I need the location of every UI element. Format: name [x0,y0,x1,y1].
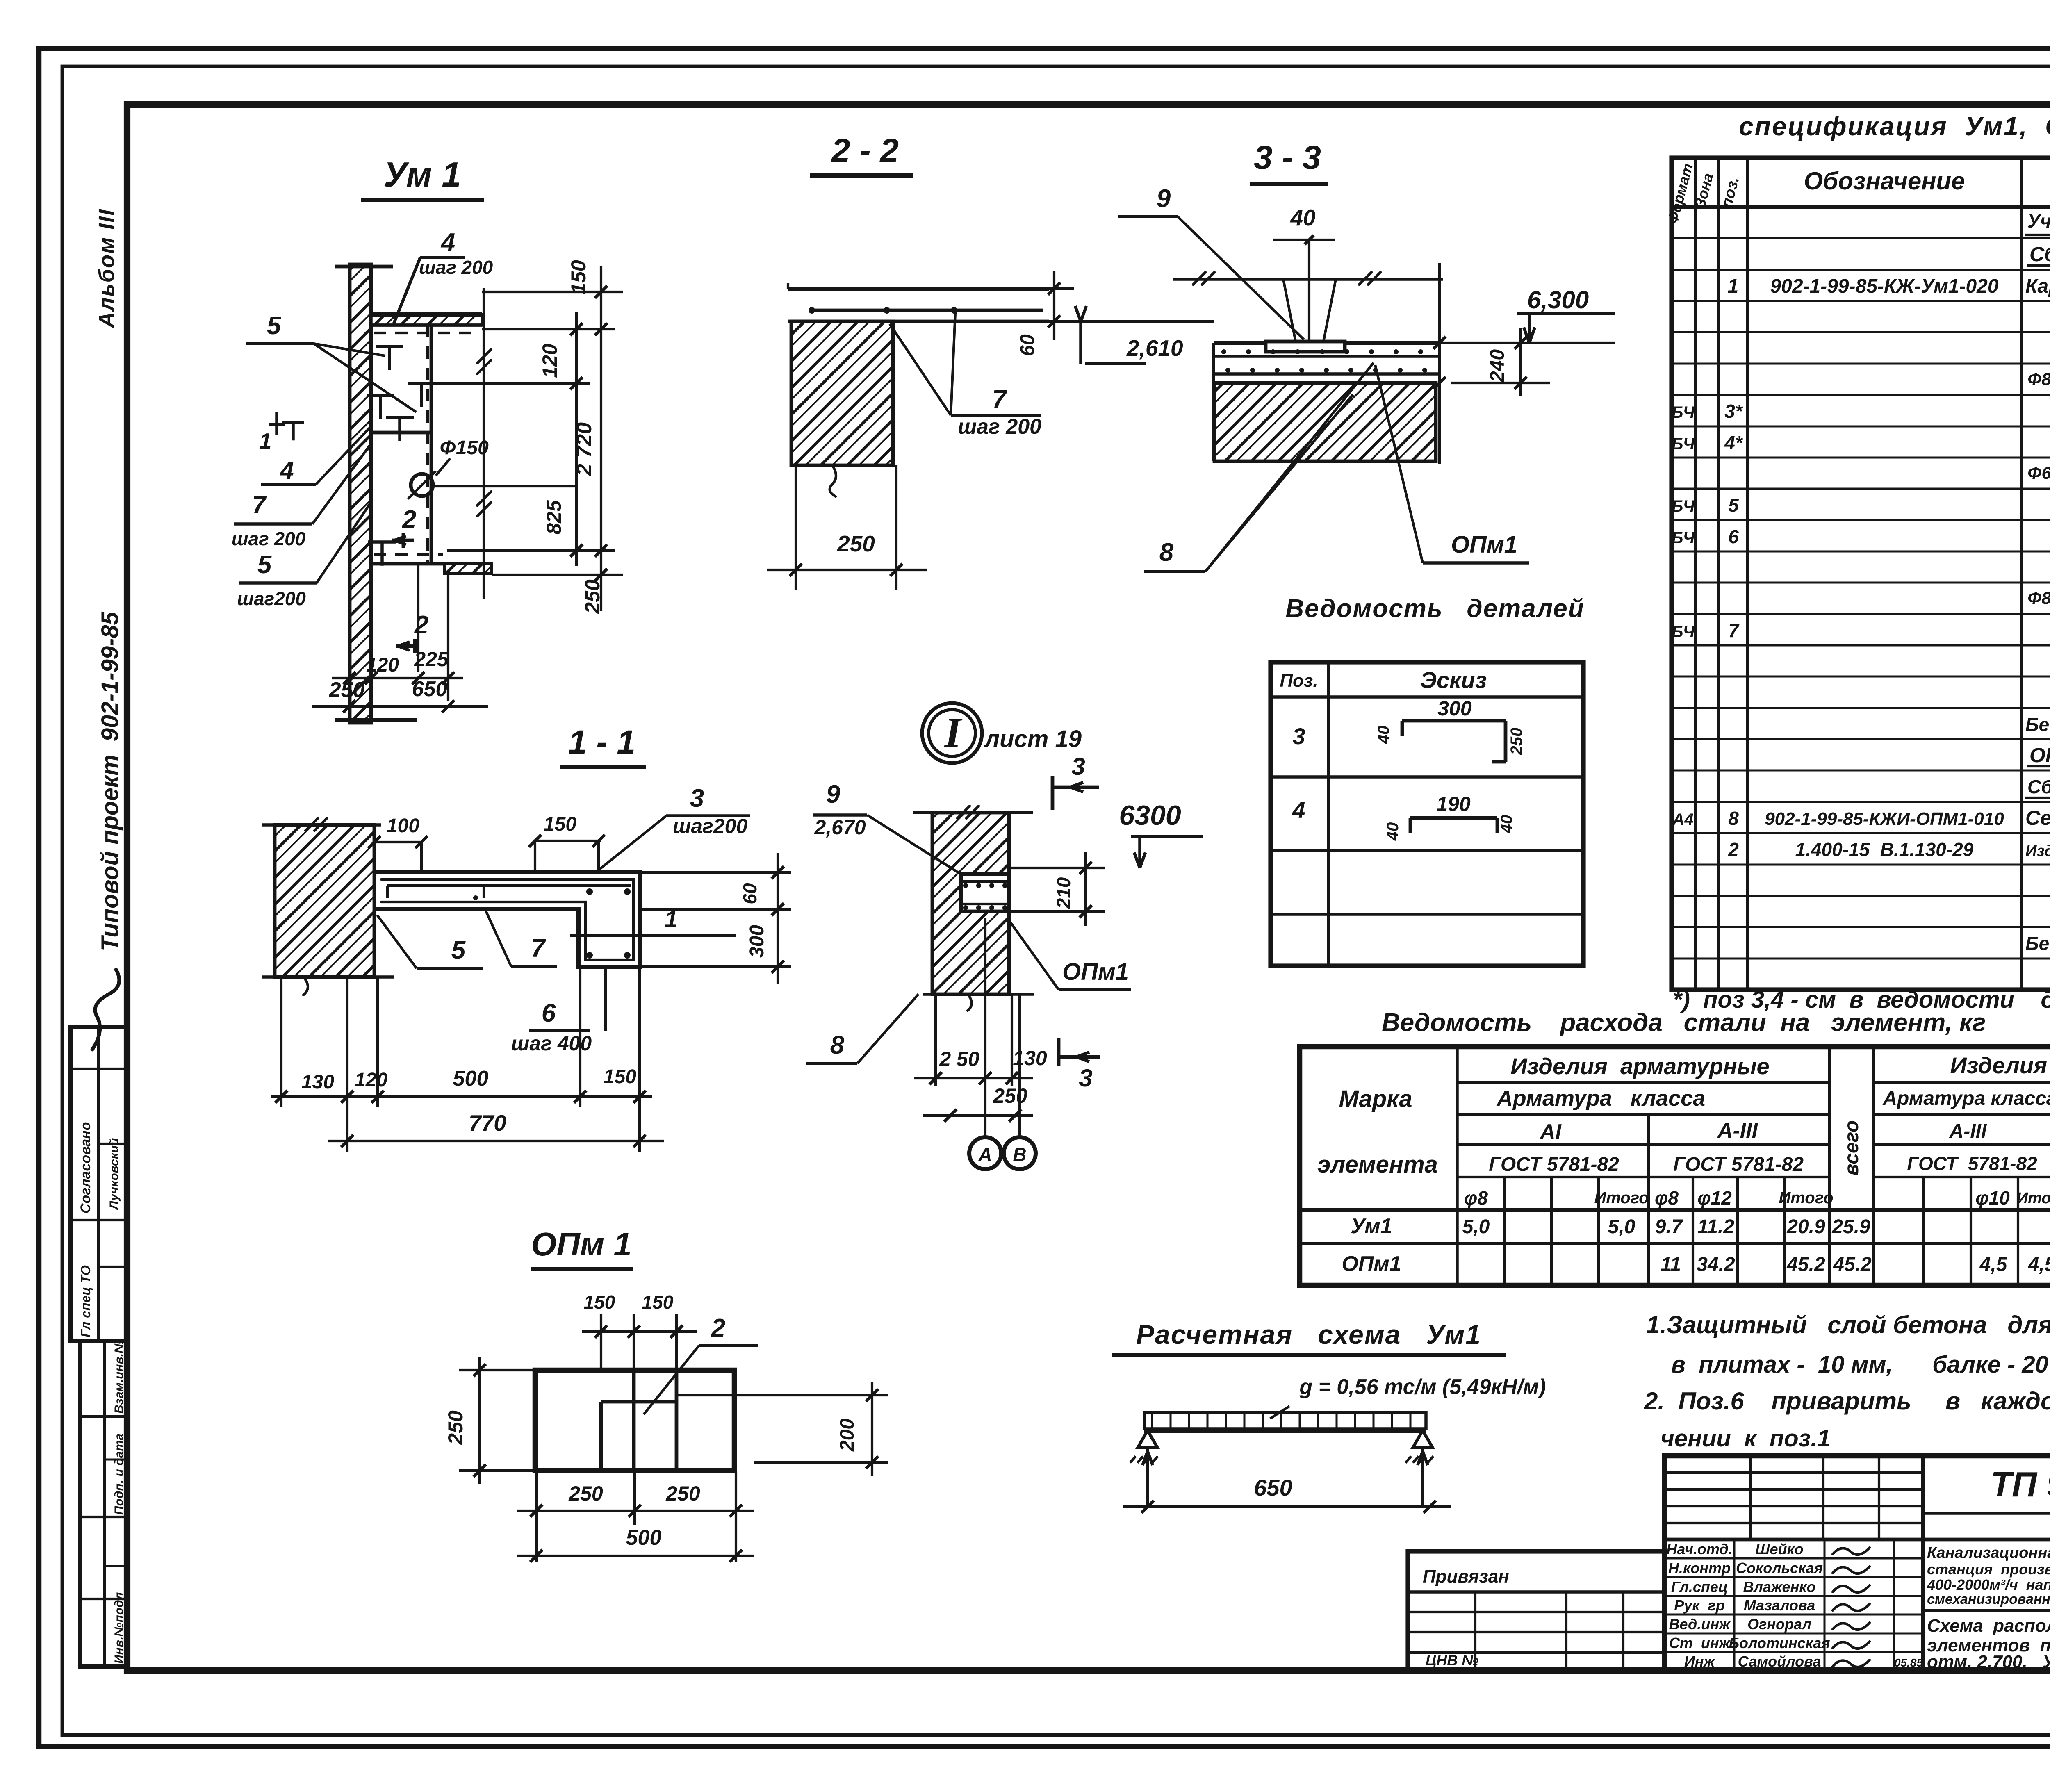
svg-text:2,670: 2,670 [814,816,866,839]
svg-text:элемента: элемента [1317,1151,1438,1178]
svg-text:40: 40 [1384,822,1402,841]
svg-text:Согласовано: Согласовано [78,1122,93,1214]
svg-text:8: 8 [1159,538,1174,567]
steel table subcolumn lines [1503,1177,1506,1285]
svg-text:ОПм1 - шт.16: ОПм1 - шт.16 [2029,744,2050,767]
svg-text:4: 4 [280,457,294,484]
svg-text:Нач.отд.: Нач.отд. [1666,1541,1732,1557]
svg-text:Мазалова: Мазалова [1744,1597,1815,1614]
svg-text:Марка: Марка [1339,1086,1412,1112]
svg-text:Изделия арматурные: Изделия арматурные [1510,1053,1769,1079]
svg-text:φ12: φ12 [1697,1187,1732,1209]
svg-text:40: 40 [1290,205,1316,230]
svg-text:825: 825 [542,500,565,535]
OPm1 inner lines [632,1370,636,1471]
svg-text:шаг200: шаг200 [673,815,748,838]
Um1 dashed rebar lines [426,325,429,564]
svg-text:120: 120 [366,654,399,676]
calc scheme dim 650 [1123,1505,1451,1508]
svg-text:902-1-99-85-КЖ-Ум1-020: 902-1-99-85-КЖ-Ум1-020 [1770,276,1998,297]
svg-text:Ум1: Ум1 [1351,1214,1392,1238]
title block names rows [1665,1557,1923,1560]
1-1 beam inner rebar dots [586,888,593,895]
svg-text:Итого: Итого [1779,1189,1833,1207]
svg-text:11: 11 [1660,1254,1681,1275]
Um1 right dimension lines [482,291,623,293]
svg-text:I: I [944,708,963,756]
svg-text:250: 250 [837,531,875,556]
1-1 slab rebar hooks [387,884,631,887]
svg-text:Самойлова: Самойлова [1738,1653,1821,1670]
svg-text:9.7: 9.7 [1655,1216,1683,1238]
svg-text:6: 6 [542,999,556,1027]
Um1 hole F150 circle [411,474,433,496]
svg-text:Гл.спец: Гл.спец [1671,1578,1728,1595]
svg-text:Ведомость деталей: Ведомость деталей [1285,594,1584,623]
svg-text:902-1-99-85-КЖИ-ОПМ1-010: 902-1-99-85-КЖИ-ОПМ1-010 [1765,809,2004,829]
middle slab extension lines [1009,867,1105,869]
svg-text:Болотинская: Болотинская [1729,1635,1830,1651]
axis circles A B [969,1137,1001,1169]
svg-text:Сетка С11: Сетка С11 [2025,806,2050,829]
svg-text:Влаженко: Влаженко [1743,1578,1816,1595]
svg-text:2: 2 [402,505,416,534]
svg-text:100: 100 [387,815,419,837]
svg-text:Поз.: Поз. [1280,671,1318,691]
1-1 slab and beam outline [376,872,640,967]
svg-text:25.9: 25.9 [1831,1216,1870,1238]
Um1 break line [483,288,485,599]
svg-text:130: 130 [1013,1047,1047,1070]
middle OPm plate section [961,874,1009,911]
svg-text:400-2000м³/ч напором 30-40м: 400-2000м³/ч напором 30-40м [1927,1576,2050,1593]
svg-text:g = 0,56 тс/м (5,49кН/м): g = 0,56 тс/м (5,49кН/м) [1299,1375,1546,1399]
svg-text:БЧ: БЧ [1672,497,1695,515]
svg-text:Расчетная схема Ум1: Расчетная схема Ум1 [1136,1319,1481,1350]
svg-text:250: 250 [568,1482,603,1505]
svg-text:5,0: 5,0 [1462,1216,1490,1238]
svg-text:60: 60 [739,883,761,904]
svg-text:2,610: 2,610 [1126,335,1183,361]
svg-text:1.Защитный слой бетона для: 1.Защитный слой бетона для рабочей армат… [1646,1311,2050,1339]
svg-text:шаг 200: шаг 200 [958,415,1041,439]
svg-text:Инв.№подл: Инв.№подл [112,1592,126,1664]
svg-text:Обозначение: Обозначение [1804,167,1965,195]
svg-text:Φ6А-I гост5181-82: Φ6А-I гост5181-82 [2027,463,2050,483]
svg-text:ОПм1: ОПм1 [1062,959,1129,985]
Um1 bottom dimensions [370,715,372,723]
svg-text:Каркас плоский КР 22: Каркас плоский КР 22 [2025,276,2050,297]
1-1 bottom dim row1 [280,977,282,1107]
steel table grid [1300,1047,2050,1285]
svg-text:250: 250 [444,1410,467,1445]
svg-text:1: 1 [1728,276,1739,297]
svg-text:40: 40 [1498,815,1516,834]
svg-text:3: 3 [1292,723,1305,749]
svg-text:250: 250 [665,1482,700,1505]
svg-text:Изделия закладные: Изделия закладные [1950,1052,2050,1078]
svg-text:Гл спец ТО: Гл спец ТО [78,1265,93,1337]
calc scheme left support [1138,1430,1157,1448]
svg-text:Изделие закладное МН121-6: Изделие закладное МН121-6 [2025,842,2050,860]
svg-text:Φ8А-IIIгост5781-82: Φ8А-IIIгост5781-82 [2027,369,2050,389]
svg-text:Схема расположения: Схема расположения [1927,1616,2050,1636]
svg-text:130: 130 [301,1071,334,1093]
svg-text:ГОСТ 5781-82: ГОСТ 5781-82 [1489,1154,1619,1175]
svg-text:4: 4 [440,228,455,257]
svg-text:ЦНВ №: ЦНВ № [1426,1652,1479,1669]
svg-text:8: 8 [1728,808,1739,829]
2-2 pier bottom break [830,465,836,496]
svg-text:5,0: 5,0 [1608,1216,1635,1238]
calc scheme support verticals [1146,1449,1149,1507]
svg-text:ГОСТ 5781-82: ГОСТ 5781-82 [1673,1154,1804,1175]
middle wall hatched [932,813,1009,994]
svg-text:Итого: Итого [2017,1190,2050,1207]
Um1 element top slab strip [371,314,482,325]
svg-text:60: 60 [1017,334,1039,356]
svg-text:7: 7 [531,934,546,963]
svg-text:Лучковский: Лучковский [107,1138,121,1210]
svg-text:4,5: 4,5 [1979,1254,2008,1275]
svg-text:БЧ: БЧ [1672,403,1695,421]
svg-text:2 720: 2 720 [572,422,596,476]
svg-text:2: 2 [1728,839,1739,860]
svg-text:Взам.инв.№: Взам.инв.№ [112,1339,126,1414]
svg-text:250: 250 [329,678,365,702]
svg-text:Н.контр: Н.контр [1668,1560,1731,1576]
svg-text:6300: 6300 [1119,800,1181,831]
svg-text:5: 5 [1728,494,1739,516]
svg-text:всего: всего [1841,1120,1863,1176]
svg-text:чении к поз.1: чении к поз.1 [1660,1425,1831,1452]
svg-text:150: 150 [604,1066,636,1088]
svg-text:2. Поз.6 приварить в: 2. Поз.6 приварить в каждом пересе- [1644,1387,2050,1415]
svg-text:190: 190 [1436,792,1471,815]
svg-text:1: 1 [665,906,678,933]
svg-text:4*: 4* [1724,432,1743,453]
middle bottom extension lines [934,994,937,1086]
svg-text:9: 9 [826,780,840,808]
svg-text:5: 5 [257,551,272,579]
3-3 slab with embedded plate [1214,341,1440,345]
1-1 hatched wall [275,825,374,977]
svg-text:ТП 902-1-99-85 -КЖ: ТП 902-1-99-85 -КЖ [1991,1465,2050,1504]
svg-text:А: А [978,1144,992,1165]
svg-text:Φ150: Φ150 [440,437,489,459]
svg-text:Инж: Инж [1684,1653,1716,1670]
svg-text:250: 250 [993,1084,1027,1107]
privyazan table [1408,1551,1665,1671]
svg-text:Бетон маркиМ200: Бетон маркиМ200 [2025,933,2050,954]
svg-text:шаг 200: шаг 200 [419,257,493,278]
svg-text:5: 5 [267,312,282,340]
svg-text:7: 7 [992,385,1007,414]
svg-text:120: 120 [355,1069,387,1091]
svg-text:7: 7 [1728,620,1740,641]
svg-text:120: 120 [538,344,561,378]
svg-text:225: 225 [414,648,449,671]
svg-text:40: 40 [1375,726,1393,745]
svg-text:лист 19: лист 19 [984,726,1082,752]
svg-text:05.85: 05.85 [1894,1656,1923,1669]
svg-text:УчастокмонолитныйУм1: УчастокмонолитныйУм1 [2027,210,2050,232]
svg-text:2 - 2: 2 - 2 [831,132,899,169]
svg-text:смеханизированными решетками: смеханизированными решетками [1927,1592,2050,1607]
svg-text:ОПм1: ОПм1 [1342,1252,1401,1276]
svg-text:Сборочные единицы: Сборочные единицы [2029,243,2050,266]
svg-text:7: 7 [252,491,267,519]
svg-text:300: 300 [746,925,768,958]
svg-text:210: 210 [1053,877,1074,909]
svg-text:Ум 1: Ум 1 [383,155,461,194]
svg-text:ОПм 1: ОПм 1 [531,1226,632,1262]
title block outer [1665,1456,2050,1671]
svg-text:Привязан: Привязан [1423,1567,1509,1587]
svg-text:А-III: А-III [1717,1119,1758,1143]
svg-text:А4: А4 [1672,811,1693,829]
1-1 bottom dim row2 [328,1140,664,1142]
svg-text:Арматура класса: Арматура класса [1496,1086,1705,1111]
svg-text:ОПм1: ОПм1 [1451,531,1517,558]
svg-text:20.9: 20.9 [1786,1216,1825,1238]
svg-text:Огнорал: Огнорал [1747,1616,1811,1633]
title block top small grid [1665,1538,1923,1542]
svg-text:5: 5 [451,936,466,964]
uzel I double circle marker [922,703,982,763]
3-3 hatched concrete band [1214,383,1436,461]
OPm1 top dims 150 150 [600,1314,602,1370]
svg-text:200: 200 [836,1419,858,1452]
Um1 element outline [371,312,482,317]
2-2 slab [788,287,1049,291]
Um1 marker 1T4 [269,423,285,426]
svg-text:Итого: Итого [1594,1189,1649,1207]
middle dim row 250b [922,1114,1033,1117]
svg-text:φ8: φ8 [1464,1187,1488,1209]
OPm1 left dim 250 [459,1369,535,1371]
Um1 wall hatched band [350,264,371,723]
svg-text:Канализационная насосная: Канализационная насосная [1927,1544,2050,1562]
svg-text:3: 3 [1071,753,1085,780]
stamp signature squiggle [92,970,119,1050]
svg-text:4: 4 [1292,797,1305,823]
OPm1 right dim 200 [676,1394,888,1396]
calc scheme right support [1413,1430,1433,1448]
title block TP number cell [1923,1512,2050,1515]
calc scheme beam [1144,1412,1426,1429]
3-3 right dim line [1438,263,1441,464]
svg-text:45.2: 45.2 [1786,1254,1825,1275]
svg-text:Сокольская: Сокольская [1736,1560,1823,1576]
svg-text:ГОСТ 5781-82: ГОСТ 5781-82 [1907,1153,2037,1174]
svg-text:БЧ: БЧ [1672,435,1695,453]
svg-text:250: 250 [1508,728,1526,756]
svg-text:станция производительностью: станция производительностью [1927,1561,2050,1578]
svg-text:Рук гр: Рук гр [1674,1597,1725,1614]
left stamp strip upper block [71,1027,127,1341]
svg-text:150: 150 [642,1291,674,1313]
svg-text:3*: 3* [1724,401,1743,422]
svg-text:4,5: 4,5 [2028,1254,2050,1275]
specification table grid [1672,158,2050,990]
svg-text:1.400-15 В.1.130-29: 1.400-15 В.1.130-29 [1795,839,1974,860]
svg-text:А-III: А-III [1949,1120,1987,1142]
section marker 3 top [1051,776,1055,810]
svg-text:1: 1 [259,428,272,454]
svg-text:500: 500 [626,1526,662,1550]
3-3 top boundary line [1173,278,1443,281]
svg-text:Арматура класса: Арматура класса [1882,1088,2050,1109]
svg-text:150: 150 [584,1291,615,1313]
svg-text:шаг 200: шаг 200 [232,528,306,549]
svg-text:1 - 1: 1 - 1 [568,724,635,761]
section marker 3 bottom [1057,1038,1061,1066]
svg-text:500: 500 [453,1067,489,1091]
svg-text:шаг200: шаг200 [237,588,306,609]
svg-text:11.2: 11.2 [1697,1216,1734,1238]
svg-text:770: 770 [469,1110,506,1136]
svg-text:2: 2 [414,611,428,639]
svg-text:2 50: 2 50 [939,1047,979,1070]
svg-text:φ10: φ10 [1975,1187,2010,1209]
svg-text:8: 8 [830,1031,845,1059]
svg-text:300: 300 [1437,697,1472,720]
svg-text:Вед.инж: Вед.инж [1669,1616,1731,1633]
svg-text:спецификация Ум1, ОПм1: спецификация Ум1, ОПм1 [1739,112,2050,141]
svg-text:БЧ: БЧ [1672,623,1695,641]
svg-text:45.2: 45.2 [1833,1254,1872,1275]
svg-text:Шейко: Шейко [1755,1541,1804,1557]
svg-text:Альбом III: Альбом III [94,209,119,329]
svg-text:Бетон марки М200: Бетон марки М200 [2025,714,2050,735]
1-1 right dims 60 300 [640,871,791,874]
middle dim row 250 130 [914,1077,1033,1079]
svg-text:650: 650 [412,677,448,701]
svg-text:3 - 3: 3 - 3 [1254,139,1321,176]
svg-text:3: 3 [1079,1064,1092,1092]
svg-text:2: 2 [711,1314,725,1342]
svg-text:650: 650 [1254,1475,1292,1501]
2-2 dim 60 and level 2,610 [943,287,1074,290]
svg-text:3: 3 [690,784,704,813]
svg-text:Ведомость расхода стали: Ведомость расхода стали на элемент, кг [1382,1009,1986,1037]
Um1 rebar T symbols [376,345,403,348]
svg-text:Φ8А-IIIгост5781-82: Φ8А-IIIгост5781-82 [2027,588,2050,608]
OPm1 plate rectangle [535,1370,734,1471]
vedomost detaley table grid [1271,662,1583,966]
svg-text:250: 250 [581,579,604,614]
left stamp strip lower block [80,1341,127,1667]
svg-text:Ст инж: Ст инж [1669,1635,1731,1651]
svg-text:Типовой проект 902-1-99-85: Типовой проект 902-1-99-85 [97,611,123,951]
svg-text:240: 240 [1487,349,1508,383]
svg-text:АI: АI [1539,1120,1562,1144]
svg-text:9: 9 [1157,184,1171,213]
svg-text:150: 150 [544,813,576,835]
2-2 dim 250 [795,465,797,590]
svg-text:В: В [1013,1144,1026,1165]
svg-text:Сборочные единицы: Сборочные единицы [2027,776,2050,797]
svg-text:150: 150 [567,260,590,294]
svg-text:6,300: 6,300 [1527,286,1589,314]
svg-text:БЧ: БЧ [1672,529,1695,547]
OPm1 bottom dims [535,1471,538,1562]
svg-text:Подп. и дата: Подп. и дата [112,1433,126,1515]
2-2 pier hatched [791,321,893,465]
svg-text:Эскиз: Эскиз [1420,667,1487,693]
svg-text:отм. 2,700, Ум1. ОПм1: отм. 2,700, Ум1. ОПм1 [1927,1652,2050,1672]
svg-text:34.2: 34.2 [1697,1254,1735,1275]
svg-text:в плитах - 10 мм, балке: в плитах - 10 мм, балке - 20 мм [1671,1351,2050,1378]
svg-text:6: 6 [1728,526,1739,547]
svg-text:φ8: φ8 [1655,1187,1679,1209]
